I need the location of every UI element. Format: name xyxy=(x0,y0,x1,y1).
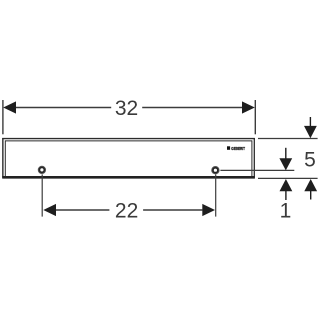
screw right xyxy=(211,166,219,174)
svg-text:GEBERIT: GEBERIT xyxy=(231,146,245,151)
arrow down to top line (dim 5) xyxy=(304,117,317,138)
label 32 xyxy=(115,97,138,120)
screw axis line right xyxy=(220,169,294,171)
svg-text:1: 1 xyxy=(280,200,292,223)
arrowhead left (dim 32) xyxy=(3,101,16,113)
extension line left (dim 32) xyxy=(2,100,4,134)
dimension line 32 xyxy=(16,107,243,109)
svg-text:32: 32 xyxy=(115,97,138,120)
arrow down to screw axis line (dim 1) xyxy=(279,148,292,171)
extension line right (dim 32) xyxy=(254,100,256,134)
bottom reference line right (shelf bottom extension) xyxy=(258,177,318,179)
arrow up to bottom line (dim 5) xyxy=(304,179,317,200)
dimension line 22 xyxy=(56,209,203,211)
shelf inner edge line xyxy=(5,140,252,176)
screw left xyxy=(38,166,46,174)
label 22 xyxy=(115,200,138,223)
arrowhead right (dim 22) xyxy=(202,204,215,216)
top reference line right (shelf top extension) xyxy=(258,138,318,140)
arrow up to bottom line (dim 1) xyxy=(280,179,293,200)
Geberit logo on shelf xyxy=(227,146,245,151)
extension line from left screw (dim 22) xyxy=(41,174,43,216)
arrowhead right (dim 32) xyxy=(242,101,255,113)
extension line from right screw (dim 22) xyxy=(215,174,217,216)
svg-text:5: 5 xyxy=(304,148,316,171)
shelf outline (front view) xyxy=(2,138,255,178)
label 1 xyxy=(280,200,292,223)
arrowhead left (dim 22) xyxy=(43,204,56,216)
label 5 xyxy=(304,148,316,171)
svg-text:22: 22 xyxy=(115,200,138,223)
